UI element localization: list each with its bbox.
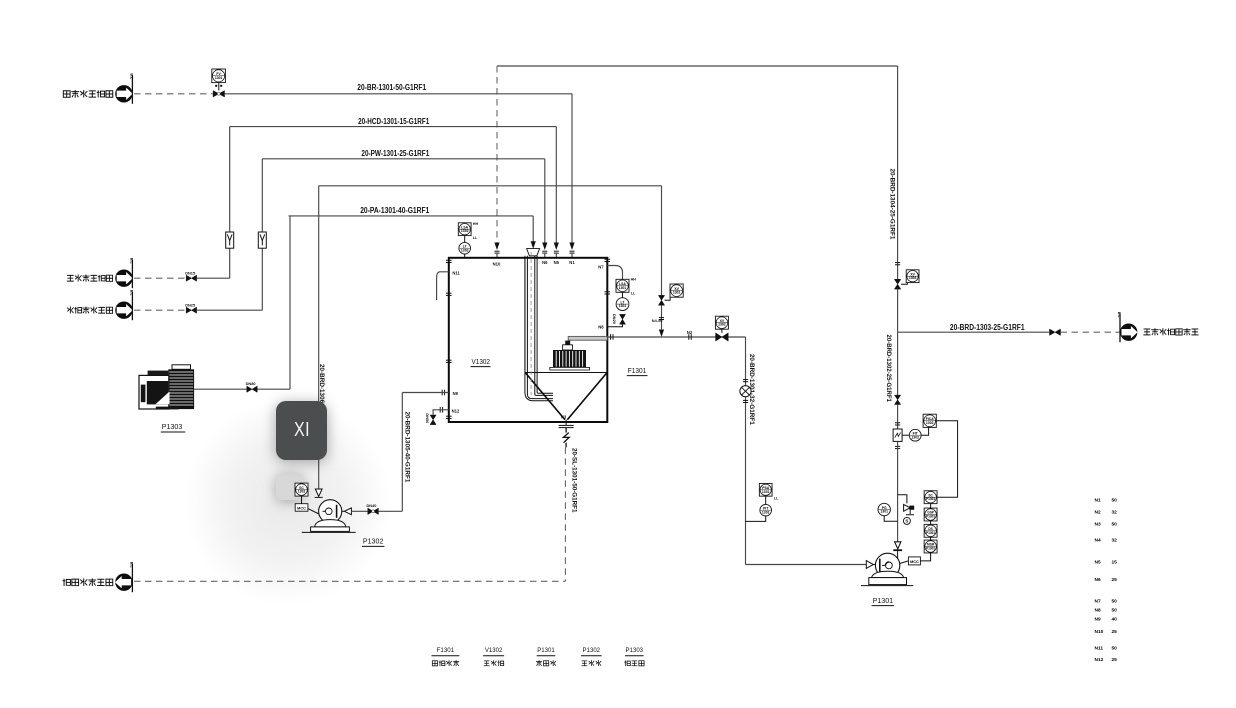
solenoid S bubble: [903, 517, 910, 524]
starter MCC P1302: [295, 504, 308, 512]
instrument LSA 1301 box: [616, 279, 629, 292]
svg-text:N9: N9: [1095, 617, 1101, 623]
svg-text:N11: N11: [1095, 646, 1104, 652]
standpipe inner walls: [526, 256, 528, 394]
svg-text:N4-50: N4-50: [652, 318, 663, 323]
svg-text:LL: LL: [631, 292, 636, 296]
svg-text:P1301: P1301: [926, 547, 935, 551]
wire MCC to pump motor: [308, 509, 319, 514]
svg-text:N7: N7: [1095, 599, 1101, 605]
pump P1302 casing: [319, 500, 342, 523]
svg-text:1302: 1302: [461, 248, 469, 252]
wire SL drain dashed run to battery limit: [134, 580, 565, 582]
label raw slurry from outside: [63, 90, 112, 98]
svg-text:P1301: P1301: [926, 497, 935, 501]
wire PA drop into standpipe funnel: [532, 216, 534, 242]
valve DN40 on P1302 discharge: [368, 508, 379, 514]
instrument XV 1304 box: [906, 270, 919, 283]
flange V1302 left wall N11 level: [446, 292, 452, 294]
wire HCD drop to N5: [555, 127, 557, 243]
svg-text:N3: N3: [1095, 522, 1101, 528]
sight glass on drop: [740, 386, 751, 397]
instrument LSA 1302 box: [458, 223, 471, 236]
permeate collection pipe: [568, 336, 607, 340]
valve on 1303 line: [1050, 329, 1061, 335]
wire stack link 1: [930, 504, 932, 508]
svg-text:MCC: MCC: [910, 560, 919, 564]
reducer into P1301: [866, 561, 873, 569]
ground line P1301: [861, 585, 913, 587]
svg-text:B.L: B.L: [130, 562, 134, 569]
svg-text:20-BRD-1303-25-G1RF1: 20-BRD-1303-25-G1RF1: [950, 323, 1025, 332]
wire PA air header: [289, 215, 534, 217]
node N6 arrow into tank: [542, 243, 547, 251]
valve XV-1302 on outlet header: [716, 333, 729, 341]
tank V1302 shell: [449, 258, 608, 422]
instrument PG 1301 bubble: [878, 503, 890, 515]
wire LT1302 to tank top: [464, 254, 466, 258]
instrument GS P1301 box: [924, 508, 937, 521]
flange V1302 right wall upper: [605, 258, 611, 260]
svg-text:20-PW-1301-25-G1RF1: 20-PW-1301-25-G1RF1: [361, 149, 429, 158]
svg-text:N10: N10: [493, 262, 501, 267]
wire blower discharge to PA riser: [257, 388, 290, 390]
connector concentrate to battery limit: [115, 574, 132, 591]
svg-text:20-PA-1301-40-G1RF1: 20-PA-1301-40-G1RF1: [360, 206, 430, 215]
svg-text:P1301: P1301: [926, 531, 935, 535]
instrument FIT 1302 bubble: [909, 429, 921, 441]
flowmeter FE 1302 body: [893, 429, 902, 441]
rotameter on PW riser: [258, 232, 266, 248]
flange N12: [439, 407, 441, 413]
instrument SC P1301 box: [924, 491, 937, 504]
standpipe funnel: [527, 249, 540, 256]
wire P1302 discharge: [351, 510, 367, 512]
valve DN15 on HCl line: [186, 275, 196, 281]
wire stack link 3: [930, 537, 932, 540]
wire 1303 dashed to battery limit: [1061, 331, 1120, 333]
wire PG to pipe: [884, 516, 897, 522]
wire riser to flowmeter: [897, 405, 899, 430]
svg-text:F1301: F1301: [628, 366, 647, 375]
svg-text:N5: N5: [554, 260, 560, 265]
node N3 outlet flange: [565, 420, 567, 426]
flange below flowmeter: [895, 445, 900, 447]
node PA arrow into funnel: [531, 241, 536, 249]
label qualified brine to outside: [1143, 328, 1198, 335]
standpipe centerline: [530, 252, 532, 395]
instrument PIT 1301 bubble: [760, 504, 772, 516]
wire HCD header: [230, 126, 557, 128]
wire N12 drain stub: [433, 410, 449, 415]
flange V1302 left wall lower: [446, 415, 452, 417]
svg-text:N2: N2: [687, 330, 693, 335]
wire bridle to N8: [607, 324, 622, 327]
wire XV1302 stem: [721, 329, 723, 333]
instrument FV 1301 box: [212, 69, 226, 83]
svg-text:50: 50: [1112, 646, 1118, 652]
starter MCC P1301: [908, 557, 920, 565]
svg-text:15: 15: [1112, 560, 1118, 566]
svg-text:N10: N10: [1095, 629, 1104, 635]
instrument LT 1302 bubble: [459, 242, 471, 254]
wire SL drain dashed drop: [564, 447, 566, 581]
rotameter on HCD riser: [226, 232, 234, 248]
wire PA riser: [289, 216, 291, 389]
svg-text:1302: 1302: [911, 435, 919, 439]
nozzle schedule table: [1095, 498, 1118, 664]
standpipe outer walls: [524, 256, 526, 392]
svg-text:N7: N7: [598, 265, 604, 270]
reducer P1302 discharge: [344, 508, 351, 515]
wire riser 1302 upper: [897, 332, 899, 395]
svg-text:50: 50: [1112, 608, 1118, 614]
svg-text:N4: N4: [1095, 538, 1101, 544]
pump P1301 impeller: [886, 562, 893, 569]
connector tap water from battery limit: [115, 302, 132, 319]
wire riser between XV1304 and tee: [897, 289, 899, 332]
svg-text:20-BR-1301-50-G1RF1: 20-BR-1301-50-G1RF1: [357, 83, 426, 92]
valve DN25 on tap water line: [186, 307, 196, 313]
svg-text:S: S: [905, 519, 908, 524]
wire N9 to riser: [402, 392, 448, 394]
connector brine to battery limit: [1120, 324, 1137, 341]
svg-text:N12: N12: [1095, 657, 1104, 663]
valve DN20 on bridle: [620, 314, 626, 324]
wire filtrate outlet header: [607, 336, 745, 338]
instrument PSA 1301 box: [759, 483, 772, 496]
svg-text:20-BRD-1304-25-G1RF1: 20-BRD-1304-25-G1RF1: [889, 169, 896, 240]
valve on riser above flowmeter: [895, 395, 901, 404]
wire P1302 discharge riser: [401, 393, 403, 512]
wire PW header: [262, 158, 545, 160]
wire BR slurry header: [225, 93, 572, 95]
svg-text:N11: N11: [452, 271, 460, 276]
svg-text:P1301: P1301: [926, 515, 935, 519]
wire PW riser: [261, 248, 263, 310]
highlight glow overlay: [185, 395, 390, 610]
svg-text:HH: HH: [473, 222, 479, 226]
svg-text:N1: N1: [569, 260, 575, 265]
svg-text:1301: 1301: [880, 510, 888, 514]
wire PW drop to N6: [544, 159, 546, 243]
svg-text:N6: N6: [1095, 577, 1101, 583]
svg-text:P1301: P1301: [873, 596, 894, 605]
instrument SC 1302 box: [295, 483, 308, 496]
svg-text:1301: 1301: [619, 304, 627, 308]
key overlay XI: [276, 401, 327, 460]
wire product riser 1304: [897, 66, 899, 279]
svg-text:25: 25: [1112, 657, 1118, 663]
svg-text:B.L: B.L: [130, 258, 134, 265]
instrument LT 1301 bubble: [616, 298, 629, 311]
svg-text:DN80: DN80: [246, 381, 256, 386]
standpipe bottom elbow: [525, 392, 553, 401]
svg-text:1301: 1301: [619, 286, 627, 290]
svg-text:LL: LL: [774, 496, 779, 500]
reducer into P1302: [315, 489, 322, 496]
pump P1302 pedestal: [315, 520, 346, 527]
wire flowmeter to FIT: [902, 434, 909, 436]
wire BR slurry dashed from battery limit: [134, 93, 213, 95]
wire N4 drop: [661, 186, 663, 296]
wire pump motor to MCC: [899, 561, 908, 564]
drain spade on N3: [563, 428, 569, 447]
wire BR drop to N1: [571, 94, 573, 243]
svg-text:20-BRD-1302-25-G1RF1: 20-BRD-1302-25-G1RF1: [885, 335, 892, 403]
svg-text:20-HCD-1301-15-G1RF1: 20-HCD-1301-15-G1RF1: [358, 117, 430, 126]
svg-text:1304: 1304: [909, 276, 917, 280]
wire riser to pump discharge: [897, 441, 899, 541]
valve XV on N4 drop: [658, 295, 664, 305]
node N4 arrow into outlet header: [659, 330, 664, 338]
svg-text:N8: N8: [1095, 608, 1101, 614]
wire stack link 2: [930, 521, 932, 525]
wire SC1302 to MCC: [301, 496, 303, 504]
node N11 vent elbow: [437, 272, 449, 300]
instrument DS P1301 box: [924, 524, 937, 537]
svg-text:HH: HH: [631, 277, 637, 281]
svg-text:50: 50: [1112, 498, 1118, 504]
instrument FICA 1302 box: [923, 414, 936, 427]
connector HCl from battery limit: [115, 270, 132, 287]
control valve FV-1301 on BR line: [213, 91, 224, 97]
blower P1303 motor cap: [172, 365, 191, 370]
connector raw slurry from battery limit: [115, 85, 132, 102]
instrument XV 1302 box: [715, 316, 728, 329]
svg-text:25: 25: [1112, 577, 1118, 583]
wire P1302 suction drop: [318, 186, 320, 489]
label tap water from outside: [67, 306, 113, 313]
svg-text:N2: N2: [1095, 510, 1101, 516]
wire pump P1301 suction run: [746, 564, 867, 566]
svg-text:1301: 1301: [673, 291, 681, 295]
blower P1303 housing: [139, 375, 169, 409]
svg-text:1302: 1302: [298, 490, 306, 494]
svg-text:1302: 1302: [718, 323, 726, 327]
wire XV1304 stub: [901, 283, 907, 285]
svg-text:DN15: DN15: [185, 270, 196, 275]
flange V1302 left wall middle: [446, 359, 452, 361]
svg-text:P1302: P1302: [363, 537, 384, 546]
svg-text:B.L: B.L: [130, 73, 134, 80]
wire backwash transfer header: [319, 185, 662, 187]
svg-text:1302: 1302: [926, 421, 934, 425]
wire MCC to interlock stack: [920, 553, 930, 561]
svg-text:DN20: DN20: [612, 314, 617, 324]
svg-text:B.L: B.L: [130, 290, 134, 297]
flange on N4 drop: [659, 317, 664, 319]
svg-text:N6: N6: [542, 260, 548, 265]
wire LSA1302 to LT1302: [464, 236, 466, 243]
svg-text:P1302: P1302: [583, 647, 601, 654]
flange on riser above XV1304: [895, 262, 900, 264]
membrane module F1301 element: [550, 367, 590, 370]
filter F1301 cone: [526, 373, 607, 420]
svg-text:F1301: F1301: [437, 647, 455, 654]
wire PIT to suction pipe: [746, 516, 766, 521]
svg-text:50: 50: [1112, 599, 1118, 605]
wire XV1301 box stub: [665, 297, 671, 300]
label concentrate to outside: [63, 578, 113, 586]
svg-text:20-BRD-1305-40-G1RF1: 20-BRD-1305-40-G1RF1: [403, 412, 410, 483]
key overlay small square: [276, 473, 303, 500]
label HCl from outside: [67, 274, 113, 281]
wire outlet drop to pump suction run: [745, 337, 747, 565]
svg-text:DN40: DN40: [367, 503, 377, 508]
flange N9: [441, 390, 443, 396]
wire LSA1301 to LT1301: [622, 292, 624, 297]
svg-text:1301: 1301: [762, 490, 770, 494]
wire HCl to riser: [197, 277, 230, 279]
node N5 arrow into tank: [554, 243, 559, 251]
svg-text:25: 25: [1112, 629, 1118, 635]
svg-text:N5: N5: [1095, 560, 1101, 566]
pump P1301 casing: [875, 553, 899, 577]
wire check valve to pump: [897, 551, 899, 559]
wire FIT to FICA: [921, 427, 929, 435]
node N1 arrow into tank: [569, 243, 574, 251]
svg-text:LL: LL: [473, 236, 478, 240]
valve DN50 drain: [430, 415, 436, 425]
wire product branch 1303: [898, 331, 1050, 333]
svg-text:P1301: P1301: [537, 647, 555, 654]
svg-text:1301: 1301: [762, 510, 770, 514]
flange N2: [688, 334, 690, 340]
ground line P1302: [302, 531, 356, 533]
svg-text:20-SL-1301-50-G1RF1: 20-SL-1301-50-G1RF1: [571, 448, 578, 513]
flange above sight glass: [743, 379, 748, 381]
svg-text:V1302: V1302: [485, 647, 503, 654]
svg-text:1301: 1301: [215, 76, 223, 80]
wire N10 backwash dashed drop: [496, 66, 498, 242]
valve XV-1304: [894, 279, 900, 289]
wire tap water to riser: [197, 309, 262, 311]
flange above flowmeter: [895, 422, 900, 424]
svg-text:P1303: P1303: [626, 647, 644, 654]
pump P1302 impeller: [326, 508, 333, 515]
svg-text:MCC: MCC: [297, 507, 306, 511]
svg-text:N1: N1: [1095, 498, 1101, 504]
check valve P1301 discharge: [895, 542, 901, 549]
flange V1302 left wall upper: [446, 259, 452, 261]
flange at filter outlet: [610, 334, 612, 340]
svg-text:DN50: DN50: [425, 413, 430, 423]
svg-text:N9: N9: [453, 391, 459, 396]
wire N4 lower drop: [661, 305, 663, 329]
svg-text:1302: 1302: [461, 229, 469, 233]
flange V1302 right wall mid: [605, 291, 611, 293]
svg-text:32: 32: [1112, 510, 1118, 516]
wire PSA to PIT: [765, 496, 767, 504]
filter F1301 tube sheet: [525, 372, 607, 374]
wire N7 elbow to bridle: [607, 266, 622, 280]
instrument MSR P1301 box: [924, 540, 937, 553]
svg-text:P1303: P1303: [162, 422, 183, 431]
filter F1301 partition wall: [524, 259, 526, 373]
node N10 arrow into tank: [494, 243, 499, 251]
wire tap water dashed: [134, 309, 186, 311]
blower P1303 motor fins: [168, 369, 194, 409]
svg-text:N3: N3: [561, 415, 567, 420]
svg-text:40: 40: [1112, 617, 1118, 623]
svg-text:32: 32: [1112, 538, 1118, 544]
wire HCl riser: [229, 248, 231, 278]
svg-text:DN25: DN25: [185, 302, 196, 307]
svg-text:50: 50: [1112, 522, 1118, 528]
svg-text:N8: N8: [598, 325, 604, 330]
solenoid vent valve: [904, 504, 914, 514]
svg-text:N12: N12: [452, 409, 460, 414]
wire P1302 discharge to riser: [378, 510, 402, 512]
valve DN80 on blower discharge: [247, 386, 257, 392]
wire FICA control loop: [936, 421, 957, 497]
pump P1301 pedestal: [872, 571, 904, 577]
wire P1303 discharge: [194, 388, 247, 390]
svg-text:V1302: V1302: [472, 357, 491, 366]
wire solenoid branch: [898, 495, 907, 504]
instrument XV 1301 box: [670, 284, 683, 297]
svg-text:B.L: B.L: [1117, 312, 1121, 319]
wire HCl dashed: [134, 277, 186, 279]
wire top header 20-BRD-1304 horizontal run: [497, 65, 898, 67]
flange below sight glass: [743, 399, 748, 401]
